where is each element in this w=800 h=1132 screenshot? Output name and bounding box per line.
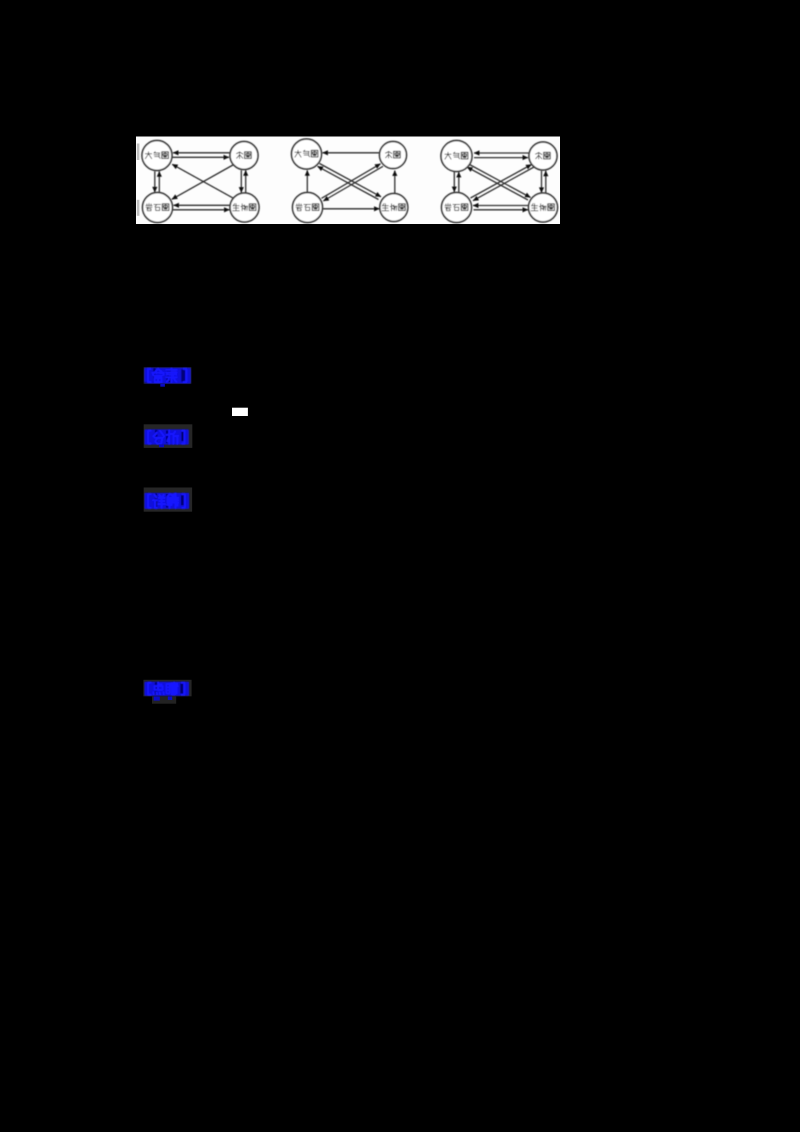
label shading 分析 — [144, 424, 193, 448]
diagram B — [292, 139, 408, 223]
arrow A: atmosphere->rock (left down) — [154, 171, 156, 192]
circle B 大气圈 — [292, 139, 322, 169]
arrow A: atmosphere->water (top lower) — [173, 156, 230, 158]
arrow B diagonal: bio->atmosphere — [318, 166, 379, 199]
arrow C: atmosphere->water (top lower) — [474, 157, 528, 159]
arrow C: atmosphere->rock (left down) — [453, 172, 455, 192]
arrow C diagonal: bio->atmosphere — [467, 167, 528, 200]
arrow C: bio->rock (bottom upper) — [473, 205, 529, 207]
arrow B diagonal: rock->water — [322, 164, 381, 199]
circle B 岩石圈 — [293, 193, 323, 223]
label shading 答案 — [144, 367, 192, 384]
diagram C — [441, 141, 558, 223]
arrow A: water->bio (right down) — [240, 170, 242, 192]
circle A 水圈 — [230, 142, 258, 170]
scan streak lower-left — [137, 200, 140, 216]
circle B 生物圈 — [380, 194, 408, 222]
arrow A: bio->water (right up) — [245, 170, 247, 192]
label shading 详解 — [144, 488, 192, 512]
arrow C diagonal: rock->water — [471, 165, 532, 199]
blue label 【答案】 — [144, 368, 191, 384]
blue descenders below 点睛 — [154, 696, 160, 700]
arrow A: rock->bio (bottom lower) — [173, 209, 230, 211]
arrow B: rock->atmosphere (left up) — [306, 170, 308, 192]
arrow A diagonal: water->rock — [172, 165, 234, 200]
circle C 岩石圈 — [442, 193, 472, 223]
blue label 【详解】 — [144, 493, 189, 509]
diagram A — [142, 141, 259, 223]
arrow C: rock->atmosphere (left up) — [458, 172, 460, 192]
arrow C: bio->water (right up) — [545, 171, 547, 193]
arrow B: water->atmosphere (top) — [323, 152, 380, 154]
circle C 大气圈 — [441, 141, 472, 172]
blue descender below 答案 — [160, 384, 165, 387]
blue label 【点睛】 — [144, 682, 189, 696]
arrow A diagonal: bio->atmosphere — [172, 164, 234, 198]
arrow B: bio->water (right up) — [394, 171, 396, 194]
arrow C diagonal: atmosphere->bio — [470, 165, 531, 198]
arrow C: water->atmosphere (top upper) — [474, 152, 529, 154]
circle A 大气圈 — [142, 141, 172, 171]
circle A 生物圈 — [230, 193, 259, 222]
arrow A: rock->atmosphere (left up) — [158, 171, 160, 192]
circle C 生物圈 — [529, 193, 558, 222]
blue label 【分析】 — [144, 429, 188, 444]
arrow C: rock->bio (bottom lower) — [474, 209, 529, 211]
circle B 水圈 — [380, 142, 407, 169]
blue descender below 分析 — [159, 444, 164, 447]
arrow B diagonal: atmosphere->bio — [320, 164, 382, 197]
label shading second line stub — [152, 696, 176, 703]
arrow A: water->atmosphere (top upper) — [173, 152, 230, 154]
circle A 岩石圈 — [143, 193, 173, 223]
white highlight (answer B) — [232, 408, 248, 416]
label shading 点睛 — [143, 680, 191, 697]
scan streak upper-left — [137, 144, 140, 161]
arrow C: water->bio (right down) — [541, 171, 543, 193]
figure white box — [136, 137, 560, 225]
arrow A: bio->rock (bottom upper) — [174, 204, 230, 206]
arrow B diagonal: water->rock — [323, 166, 383, 201]
arrow B: rock->bio (bottom) — [323, 208, 380, 210]
arrow C diagonal: water->rock — [473, 167, 534, 201]
circle C 水圈 — [529, 142, 557, 170]
